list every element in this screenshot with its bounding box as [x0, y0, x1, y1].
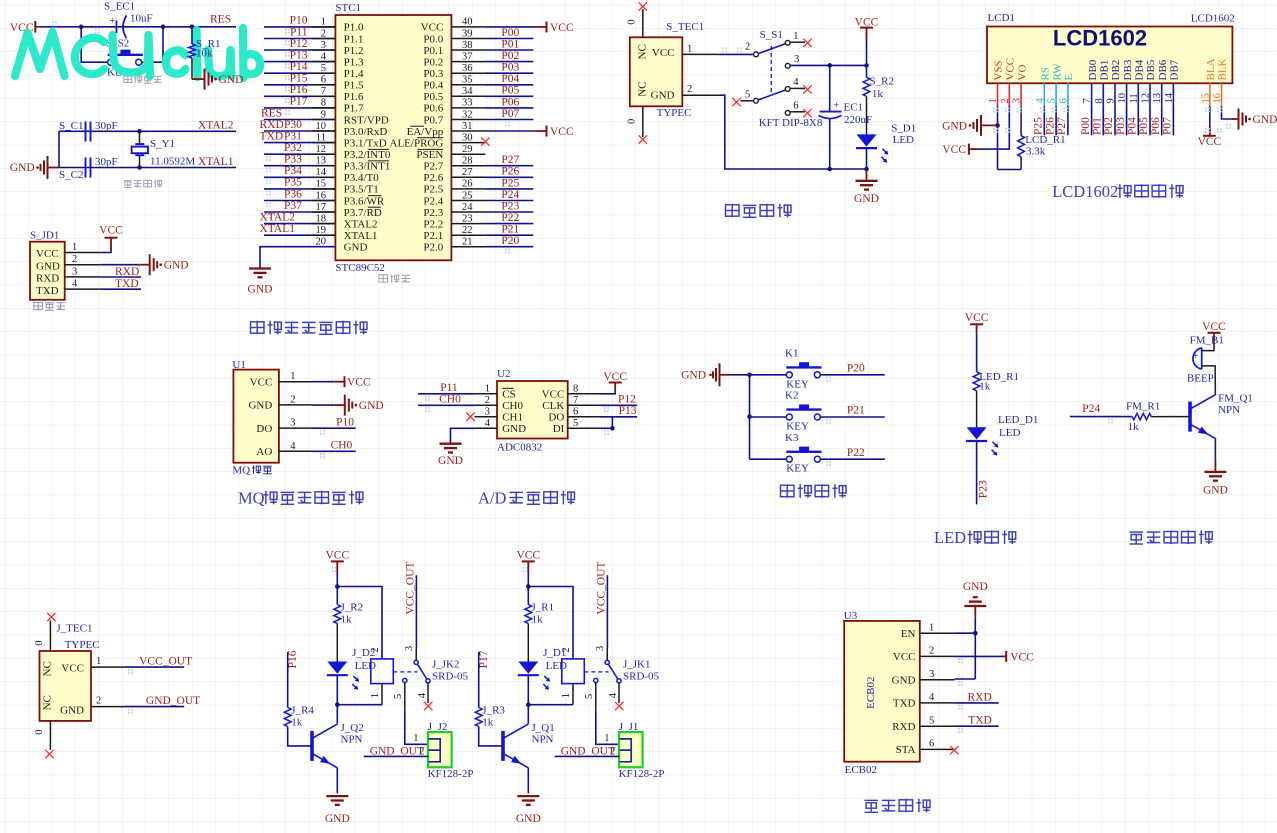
- svg-text:BEEP: BEEP: [1187, 373, 1214, 385]
- power port VCC (U1): [344, 376, 346, 387]
- svg-text:GND_OUT: GND_OUT: [370, 745, 424, 757]
- svg-text:VSS: VSS: [993, 60, 1005, 80]
- svg-text:24: 24: [462, 202, 473, 213]
- resistor J_R1 1k: [527, 587, 529, 605]
- svg-text:3.3k: 3.3k: [1026, 146, 1046, 158]
- svg-text:3: 3: [290, 418, 295, 429]
- svg-text:J_Q2: J_Q2: [341, 722, 364, 734]
- svg-text:P1.3: P1.3: [344, 56, 364, 68]
- svg-text:CH0: CH0: [439, 394, 461, 406]
- LCD data/ctrl wires down: [1043, 106, 1045, 135]
- svg-text:30: 30: [462, 132, 473, 143]
- svg-text:P0.4: P0.4: [423, 80, 443, 92]
- svg-text:2: 2: [745, 41, 750, 52]
- caption: buzzer circuit: [1130, 532, 1144, 544]
- svg-text:34: 34: [462, 86, 473, 97]
- ground GND (relay J_Q2): [326, 795, 348, 797]
- VCC_OUT net (vertical): [606, 575, 608, 648]
- svg-text:P04: P04: [501, 73, 519, 85]
- svg-text:36: 36: [462, 63, 473, 74]
- svg-text:P06: P06: [1150, 117, 1162, 135]
- svg-text:VCC: VCC: [421, 22, 444, 34]
- svg-text:J_R3: J_R3: [482, 705, 505, 717]
- svg-text:P31: P31: [284, 130, 302, 142]
- svg-text:TXD: TXD: [968, 715, 992, 727]
- svg-text:P05: P05: [501, 85, 519, 97]
- svg-text:0: 0: [627, 119, 638, 124]
- svg-text:DB5: DB5: [1145, 59, 1157, 80]
- wire XTAL2 rail: [59, 130, 236, 132]
- wire BLK pin16 to GND: [1222, 106, 1232, 119]
- svg-text:CLK: CLK: [542, 400, 564, 412]
- wire P11 to pin1: [418, 393, 475, 395]
- svg-text:ECB02: ECB02: [865, 676, 877, 708]
- svg-text:1: 1: [321, 17, 326, 28]
- svg-text:PSEN: PSEN: [416, 149, 443, 161]
- relay coil box J_JK1: [562, 659, 585, 684]
- svg-text:P16: P16: [290, 84, 308, 96]
- svg-text:P02: P02: [501, 50, 519, 62]
- svg-text:J_R1: J_R1: [532, 602, 555, 614]
- junction node A2: [161, 25, 166, 30]
- relay pin4 stub X: [427, 683, 429, 703]
- svg-text:2: 2: [290, 394, 295, 405]
- svg-text:P34: P34: [284, 165, 302, 177]
- svg-text:P03: P03: [501, 62, 519, 74]
- svg-text:CS: CS: [502, 389, 515, 401]
- TYPEC top stub with no-ERC X: [642, 9, 644, 37]
- svg-text:P35: P35: [284, 177, 302, 189]
- svg-text:XTAL2: XTAL2: [344, 218, 378, 230]
- wire VCC pin2: [955, 655, 1002, 657]
- svg-text:P01: P01: [501, 38, 519, 50]
- caption: bluetooth module: [865, 800, 879, 812]
- svg-text:XTAL1: XTAL1: [344, 230, 378, 242]
- svg-text:P13: P13: [619, 405, 637, 417]
- svg-text:VCC: VCC: [965, 312, 989, 324]
- wire K1 to P20: [820, 374, 885, 376]
- svg-text:P24: P24: [501, 189, 519, 201]
- svg-text:FM_Q1: FM_Q1: [1218, 393, 1253, 405]
- svg-text:P10: P10: [336, 417, 354, 429]
- svg-text:P14: P14: [290, 61, 308, 73]
- annotation: download port (gray): [34, 302, 43, 311]
- svg-text:0: 0: [627, 20, 638, 25]
- svg-text:P04: P04: [1127, 117, 1139, 135]
- svg-text:FM_B1: FM_B1: [1190, 335, 1224, 347]
- svg-text:RXD: RXD: [260, 119, 284, 131]
- wire left leg of S_S2: [81, 27, 108, 62]
- svg-text:32: 32: [462, 109, 473, 120]
- wire left vertical (C1-C2 common): [58, 131, 60, 167]
- svg-text:21: 21: [462, 237, 473, 248]
- ground GND (relay J_Q1): [517, 795, 539, 797]
- svg-text:+: +: [834, 101, 840, 112]
- wire pin4 to GND: [451, 428, 475, 443]
- svg-text:RS: RS: [1040, 67, 1052, 80]
- svg-text:P01: P01: [1092, 117, 1104, 135]
- LCD pin stubs: [997, 83, 999, 106]
- svg-text:ECB02: ECB02: [845, 764, 877, 776]
- wire VCC pin2: [982, 106, 1010, 149]
- svg-text:P36: P36: [284, 188, 302, 200]
- svg-text:P2.1: P2.1: [423, 230, 443, 242]
- svg-text:LED: LED: [893, 134, 914, 146]
- svg-text:2: 2: [929, 646, 934, 657]
- svg-text:P24: P24: [1082, 403, 1100, 415]
- svg-text:TXD: TXD: [115, 278, 139, 290]
- wire VCC to RES net (top reset rail): [41, 26, 237, 28]
- svg-text:S_D1: S_D1: [891, 123, 916, 135]
- pin6 stub X: [791, 111, 806, 113]
- svg-text:TXD: TXD: [893, 698, 916, 710]
- svg-text:P3.5/T1: P3.5/T1: [344, 184, 379, 196]
- svg-text:4: 4: [321, 51, 327, 62]
- svg-text:26: 26: [462, 179, 473, 190]
- svg-text:P3.6/WR: P3.6/WR: [344, 195, 385, 207]
- svg-text:1: 1: [96, 656, 101, 667]
- power port VCC (U3): [1002, 655, 1006, 657]
- caption: power circuit: [726, 204, 740, 218]
- svg-text:GND: GND: [681, 370, 706, 382]
- annotation: MCU (gray): [379, 274, 388, 283]
- svg-text:J_R4: J_R4: [291, 705, 314, 717]
- svg-text:0: 0: [34, 640, 45, 645]
- svg-text:DB4: DB4: [1134, 59, 1146, 80]
- wire pin3 RXD: [100, 276, 141, 278]
- wire pin4 CH0: [313, 450, 356, 452]
- svg-text:EC1: EC1: [844, 102, 864, 114]
- svg-text:16: 16: [316, 190, 327, 201]
- svg-text:BLK: BLK: [1217, 58, 1229, 80]
- svg-text:S_EC1: S_EC1: [104, 1, 135, 13]
- svg-text:P07: P07: [1162, 117, 1174, 135]
- svg-text:3: 3: [929, 669, 934, 680]
- svg-text:GND: GND: [516, 813, 541, 825]
- svg-text:NPN: NPN: [341, 734, 363, 746]
- svg-text:39: 39: [462, 28, 473, 39]
- caption: MCU minimal system: [251, 321, 265, 335]
- svg-text:1: 1: [793, 31, 798, 42]
- svg-text:NC: NC: [637, 44, 649, 59]
- ground GND (U2): [440, 443, 462, 445]
- svg-text:4: 4: [793, 77, 799, 88]
- svg-text:XTAL2: XTAL2: [198, 120, 234, 132]
- svg-text:VCC_OUT: VCC_OUT: [596, 562, 608, 615]
- power port VCC (S_JD1): [105, 237, 118, 239]
- svg-text:4: 4: [417, 692, 428, 698]
- svg-text:RW: RW: [1051, 63, 1063, 81]
- ground GND (power circuit): [866, 169, 868, 181]
- svg-text:12: 12: [316, 144, 327, 155]
- svg-text:XTAL1: XTAL1: [260, 223, 296, 235]
- svg-text:BLA: BLA: [1205, 58, 1217, 80]
- svg-text:ADC0832: ADC0832: [497, 442, 542, 454]
- svg-text:P0.7: P0.7: [423, 114, 443, 126]
- svg-text:2: 2: [96, 696, 101, 707]
- svg-text:1: 1: [485, 383, 490, 394]
- wire pin20 GND drop: [260, 247, 335, 269]
- pin3 wire to VCC rail: [791, 64, 867, 66]
- svg-text:GND: GND: [1253, 114, 1277, 126]
- wire pin4 TXD: [100, 288, 141, 290]
- power port VCC (pin31 EA): [537, 130, 547, 132]
- svg-text:NC: NC: [42, 661, 54, 676]
- svg-text:31: 31: [462, 121, 473, 132]
- svg-text:1k: 1k: [1128, 421, 1140, 433]
- logo MCUclub: [15, 28, 260, 78]
- svg-text:1k: 1k: [482, 717, 494, 729]
- svg-text:RXD: RXD: [968, 691, 992, 703]
- wire BLA pin15 to VCC: [1209, 106, 1211, 124]
- svg-text:P27: P27: [1056, 117, 1068, 135]
- svg-text:37: 37: [462, 51, 473, 62]
- power port VCC (pin40): [537, 26, 547, 28]
- svg-text:NC: NC: [637, 82, 649, 97]
- svg-text:1k: 1k: [291, 717, 303, 729]
- svg-text:P26: P26: [501, 166, 519, 178]
- ground GND (LCD left): [980, 115, 982, 136]
- svg-text:P2.5: P2.5: [423, 184, 443, 196]
- svg-text:P20: P20: [501, 235, 519, 247]
- svg-text:P3.2/INT0: P3.2/INT0: [344, 149, 391, 161]
- svg-text:RST/VPD: RST/VPD: [344, 114, 389, 126]
- svg-text:GND: GND: [359, 400, 384, 412]
- svg-text:2: 2: [321, 28, 326, 39]
- svg-text:23: 23: [462, 213, 473, 224]
- relay pin4 stub X: [618, 683, 620, 703]
- svg-text:GND: GND: [325, 813, 350, 825]
- svg-text:P3.3/INT1: P3.3/INT1: [344, 161, 391, 173]
- svg-text:2: 2: [687, 84, 692, 95]
- svg-text:0: 0: [34, 730, 45, 735]
- svg-text:1: 1: [370, 693, 381, 698]
- svg-text:KEY: KEY: [786, 378, 809, 390]
- wire VCC to coil branch: [528, 587, 573, 659]
- ground GND (buzzer): [1204, 471, 1226, 473]
- svg-text:E: E: [1063, 74, 1075, 81]
- wire right leg of S_S2: [142, 27, 163, 62]
- svg-text:LED: LED: [546, 660, 567, 672]
- ground GND (MCU pin20): [249, 267, 271, 269]
- svg-text:RXD: RXD: [36, 273, 59, 285]
- svg-text:S_JD1: S_JD1: [30, 230, 59, 242]
- svg-text:NC: NC: [42, 695, 54, 710]
- wire CH0 to pin2: [418, 404, 475, 406]
- svg-text:P15: P15: [290, 73, 308, 85]
- svg-text:1: 1: [604, 733, 609, 744]
- svg-text:+: +: [1193, 351, 1199, 362]
- power port VCC (below pin15): [1209, 124, 1211, 135]
- svg-text:GND: GND: [438, 455, 463, 467]
- svg-text:6: 6: [929, 739, 934, 750]
- svg-text:1k: 1k: [979, 381, 991, 393]
- wire pin8 to VCC: [601, 391, 615, 394]
- svg-text:P2.6: P2.6: [423, 172, 443, 184]
- svg-text:VCC: VCC: [1005, 58, 1017, 81]
- svg-text:6: 6: [793, 101, 798, 112]
- key K1: [750, 374, 787, 376]
- svg-text:P3.0/RxD: P3.0/RxD: [344, 126, 388, 138]
- svg-text:2: 2: [72, 254, 77, 265]
- svg-text:TXD: TXD: [260, 130, 284, 142]
- svg-text:P1.4: P1.4: [344, 68, 364, 80]
- svg-text:VCC: VCC: [325, 549, 349, 561]
- svg-text:8: 8: [321, 98, 326, 109]
- svg-text:KF128-2P: KF128-2P: [428, 768, 474, 780]
- svg-text:LCD1602: LCD1602: [1052, 182, 1118, 201]
- svg-text:P0.2: P0.2: [423, 56, 443, 68]
- svg-text:4: 4: [290, 441, 296, 452]
- wire pin2 to bottom rail: [719, 95, 867, 169]
- svg-text:TYPEC: TYPEC: [65, 639, 100, 651]
- wire to P23: [976, 441, 978, 504]
- svg-text:P20: P20: [847, 363, 865, 375]
- svg-text:P0.5: P0.5: [423, 91, 443, 103]
- svg-text:17: 17: [316, 202, 327, 213]
- svg-text:GND: GND: [164, 260, 189, 272]
- relay pin5 to connector: [404, 683, 406, 712]
- resistor LCD_R1 3.3k on VO: [1020, 106, 1022, 136]
- svg-text:VCC: VCC: [347, 377, 371, 389]
- svg-text:VCC: VCC: [1198, 136, 1222, 148]
- svg-text:22: 22: [462, 225, 473, 236]
- svg-text:5: 5: [321, 63, 326, 74]
- svg-text:P32: P32: [284, 142, 302, 154]
- pin1 VCC_OUT: [91, 666, 124, 668]
- wire TXD->RXD net: [955, 702, 999, 704]
- svg-text:P2.3: P2.3: [423, 207, 443, 219]
- svg-text:RXD: RXD: [115, 266, 139, 278]
- left pins of U2: [475, 393, 497, 395]
- svg-text:VCC: VCC: [893, 651, 916, 663]
- svg-text:LED: LED: [999, 427, 1020, 439]
- MCU right pin wires: [451, 26, 485, 28]
- svg-text:28: 28: [462, 156, 473, 167]
- svg-text:P26: P26: [1044, 117, 1056, 135]
- svg-text:KF128-2P: KF128-2P: [619, 768, 665, 780]
- svg-text:P21: P21: [847, 405, 865, 417]
- svg-text:VCC: VCC: [61, 662, 84, 674]
- svg-text:30pF: 30pF: [95, 120, 118, 132]
- no-ERC X at pin3: [466, 413, 474, 421]
- STA stub X: [950, 746, 958, 754]
- svg-text:STA: STA: [896, 744, 916, 756]
- svg-text:P25: P25: [1033, 117, 1045, 135]
- right pins of U2: [568, 393, 601, 395]
- svg-text:P22: P22: [501, 212, 519, 224]
- svg-text:5: 5: [745, 90, 750, 101]
- svg-text:P1.0: P1.0: [344, 22, 364, 34]
- svg-text:VCC: VCC: [1202, 321, 1226, 333]
- svg-text:GND: GND: [344, 242, 368, 254]
- svg-text:33: 33: [462, 98, 473, 109]
- svg-text:SRD-05: SRD-05: [432, 671, 469, 683]
- svg-text:S_C1: S_C1: [59, 120, 83, 132]
- svg-text:4: 4: [72, 279, 78, 290]
- resistor LED_R1 1k: [973, 372, 980, 391]
- capacitor EC1 220uF (electrolytic): [829, 65, 831, 111]
- pin5 stub X: [732, 98, 740, 106]
- svg-text:VCC: VCC: [542, 389, 565, 401]
- svg-text:P17: P17: [290, 96, 308, 108]
- svg-text:P12: P12: [290, 38, 308, 50]
- svg-text:VCC: VCC: [250, 377, 273, 389]
- pins 1-4 of U1: [279, 381, 313, 383]
- svg-text:S_Y1: S_Y1: [150, 138, 175, 150]
- svg-text:10: 10: [316, 121, 327, 132]
- svg-text:DO: DO: [548, 412, 564, 424]
- svg-text:GND: GND: [248, 400, 272, 412]
- svg-text:S_TEC1: S_TEC1: [666, 21, 704, 33]
- wire XTAL1 rail: [59, 167, 236, 169]
- svg-text:KFT DIP-8X8: KFT DIP-8X8: [759, 117, 823, 129]
- wire VO bottom to VSS rail: [998, 169, 1022, 171]
- svg-text:3: 3: [595, 646, 606, 651]
- svg-text:J_R2: J_R2: [341, 602, 364, 614]
- svg-text:P1.7: P1.7: [344, 103, 364, 115]
- svg-text:P27: P27: [501, 154, 519, 166]
- svg-text:220uF: 220uF: [844, 114, 872, 126]
- svg-text:VCC: VCC: [603, 371, 627, 383]
- svg-text:GND: GND: [963, 581, 988, 593]
- no-ERC X at pin30 ALE: [481, 137, 489, 145]
- emitter to GND (relay): [527, 768, 529, 793]
- svg-text:S_C2: S_C2: [59, 169, 83, 181]
- svg-text:LCD1602: LCD1602: [1191, 13, 1235, 25]
- wire pin5 DI tie to DO: [601, 427, 612, 429]
- svg-text:1: 1: [687, 43, 692, 54]
- svg-text:GND: GND: [1203, 485, 1228, 497]
- svg-text:P13: P13: [290, 49, 308, 61]
- svg-text:1k: 1k: [341, 614, 353, 626]
- svg-text:2: 2: [485, 395, 490, 406]
- svg-text:P0.1: P0.1: [423, 45, 443, 57]
- svg-text:S_S1: S_S1: [760, 29, 783, 41]
- svg-text:GND: GND: [892, 675, 916, 687]
- svg-text:GND: GND: [60, 705, 84, 717]
- svg-text:P33: P33: [284, 154, 302, 166]
- svg-text:VCC: VCC: [550, 126, 574, 138]
- pin2 GND_OUT: [91, 706, 124, 708]
- wire VSS to GND junction: [997, 106, 999, 169]
- wire pin1 to VCC: [100, 250, 111, 253]
- svg-text:TYPEC: TYPEC: [657, 107, 692, 119]
- svg-text:P11: P11: [440, 382, 458, 394]
- svg-text:DB0: DB0: [1087, 59, 1099, 80]
- svg-text:LED: LED: [355, 660, 376, 672]
- caption: key circuit: [781, 484, 795, 498]
- svg-text:10uF: 10uF: [130, 13, 153, 25]
- svg-text:DB2: DB2: [1110, 60, 1122, 81]
- TYPEC bottom stub with no-ERC X: [642, 106, 644, 137]
- svg-text:P05: P05: [1138, 117, 1150, 135]
- svg-text:P10: P10: [290, 15, 308, 27]
- pin4 stub X: [791, 87, 806, 89]
- svg-text:5: 5: [929, 715, 934, 726]
- wire pin6 P13: [601, 416, 637, 418]
- svg-text:P12: P12: [618, 394, 636, 406]
- svg-text:VCC_OUT: VCC_OUT: [139, 656, 192, 668]
- svg-text:GND: GND: [248, 284, 273, 296]
- svg-text:DO: DO: [256, 423, 272, 435]
- svg-text:DB1: DB1: [1099, 60, 1111, 81]
- svg-text:P3.7/RD: P3.7/RD: [344, 207, 382, 219]
- svg-text:P07: P07: [501, 108, 519, 120]
- svg-text:29: 29: [462, 144, 473, 155]
- ground GND (S_JD1): [138, 264, 150, 266]
- ground GND (below S_R1): [192, 78, 205, 80]
